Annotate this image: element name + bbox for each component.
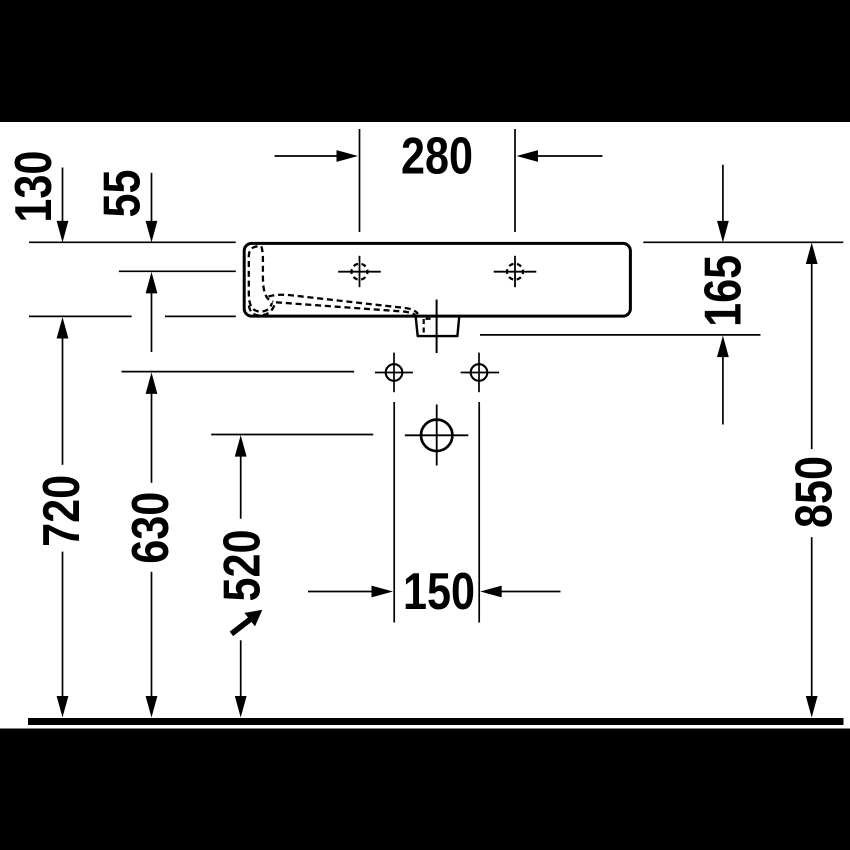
dim 850 line with arrows (806, 243, 818, 718)
dim 55 arrow (146, 173, 158, 243)
basin bottom extension line (left seg) (29, 315, 132, 317)
280 extension line left (359, 129, 361, 232)
svg-text:280: 280 (401, 128, 473, 186)
svg-text:630: 630 (122, 492, 180, 564)
280 extension line right (514, 129, 516, 232)
drain circle extension line (211, 434, 373, 436)
fixing hole right (461, 353, 500, 393)
spigot bottom extension line (480, 334, 761, 336)
dim 520 line with arrows (235, 435, 247, 717)
dim 720 line with arrows (57, 317, 69, 718)
drain center line (436, 300, 438, 354)
floor line (28, 718, 844, 725)
rim extension line right (643, 241, 843, 243)
150 extension line left (393, 402, 395, 623)
dim 130 arrow (57, 168, 69, 243)
tap hole crosshair left (338, 256, 381, 287)
svg-text:55: 55 (94, 170, 152, 218)
spigot hidden dashed line (423, 319, 425, 334)
rim extension line left (29, 241, 236, 243)
spigot hidden dashed mark (426, 318, 435, 320)
dim 165 bottom arrow (points up to spigot line) (717, 336, 729, 425)
inner ledge extension line (119, 270, 236, 272)
svg-text:150: 150 (403, 563, 475, 621)
fixing hole left (375, 353, 413, 393)
svg-text:850: 850 (786, 456, 844, 528)
svg-text:720: 720 (33, 475, 91, 547)
basin inner wall dashed contour (inner) (261, 246, 273, 301)
dim 280 left arrow (275, 150, 359, 162)
dim 630 line with arrows (146, 372, 158, 717)
fixing holes extension line (122, 371, 355, 373)
drain spigot (416, 317, 460, 336)
150 extension line right (478, 402, 480, 623)
bowl lower dashed line (276, 302, 416, 315)
bottom letterbox bar (0, 729, 850, 850)
drain hole circle (405, 405, 469, 466)
basin inner wall dashed contour (outer-left) (249, 246, 272, 311)
svg-text:165: 165 (695, 255, 753, 327)
drain direction arrow (diagonal) (231, 610, 262, 634)
basin outline (244, 243, 630, 316)
svg-text:130: 130 (5, 151, 63, 223)
dim 165 top arrow (717, 165, 729, 243)
top letterbox bar (0, 0, 850, 122)
dim 150 left arrow (308, 586, 393, 598)
svg-text:520: 520 (214, 530, 272, 602)
bowl upper dashed line (269, 295, 419, 314)
tap hole crosshair right (494, 256, 537, 287)
basin bottom extension line (right seg) (165, 315, 236, 317)
dim 280 right arrow (517, 150, 603, 162)
bowl bottom curl dashed (249, 305, 275, 316)
dim 150 right arrow (480, 586, 560, 598)
dim 55 lower arrow (points up to ledge line) (146, 272, 158, 352)
